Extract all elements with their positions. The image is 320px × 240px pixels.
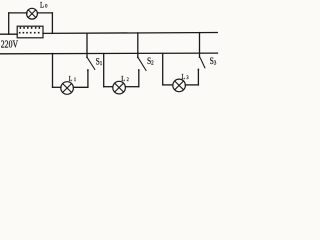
wire: switch S1 drop from top rail [86,33,88,56]
switch S2 blade [139,58,147,70]
fuse box [17,26,43,38]
lamp L2 [113,81,126,94]
svg-text:S2: S2 [147,55,154,67]
switch S2 terminal dot [137,57,139,59]
wire: L0 loop top left segment [9,12,27,14]
svg-text:L0: L0 [40,0,48,10]
wire: lamp L1 right lead [73,86,88,88]
svg-text:S3: S3 [210,55,217,67]
svg-text:L2: L2 [121,76,129,84]
wire: lamp L3 right lead [185,84,198,86]
wire: L0 loop top right segment [37,12,52,14]
wire: L0 loop left vertical [8,13,10,34]
wire: 220V top lead into fuse box [1,33,18,35]
switch S1 bottom terminal dot [87,69,89,71]
svg-text:220V: 220V [1,39,19,50]
wire: lamp L2 left lead [104,86,113,88]
wire: S2 to lamp L2 riser [138,70,140,87]
svg-text:L3: L3 [182,74,190,82]
switch S3 terminal dot [199,56,201,58]
wire: lamp L2 right lead [125,86,138,88]
wire: switch S2 drop from top rail [137,33,139,56]
wire: lamp L3 left lead [163,84,173,86]
lamp L1 [61,82,74,95]
bottom rail (neutral) [1,52,218,55]
switch S3 bottom terminal dot [198,69,200,71]
wire: S3 to lamp L3 riser [197,69,199,85]
top rail [43,32,217,35]
wire: S1 to lamp L1 riser [87,70,89,88]
wire: lamp L1 left lead [53,86,62,88]
wire: lamp L1 left riser [52,54,54,88]
fuse box ticks row [20,27,22,29]
switch S2 bottom terminal dot [138,69,140,71]
svg-text:S1: S1 [96,56,103,68]
svg-text:L1: L1 [69,76,77,84]
lamp L3 [173,79,186,92]
switch S1 blade [88,58,95,69]
wire: switch S3 drop from top rail [199,33,201,56]
wire: lamp L2 left riser [103,54,105,87]
fuse box dots row [19,32,21,34]
switch S3 blade [201,58,205,67]
switch S1 terminal dot [86,57,88,59]
lamp L0 [27,8,38,19]
wire: L0 loop right vertical [51,13,53,34]
wire: lamp L3 left riser [162,54,164,85]
